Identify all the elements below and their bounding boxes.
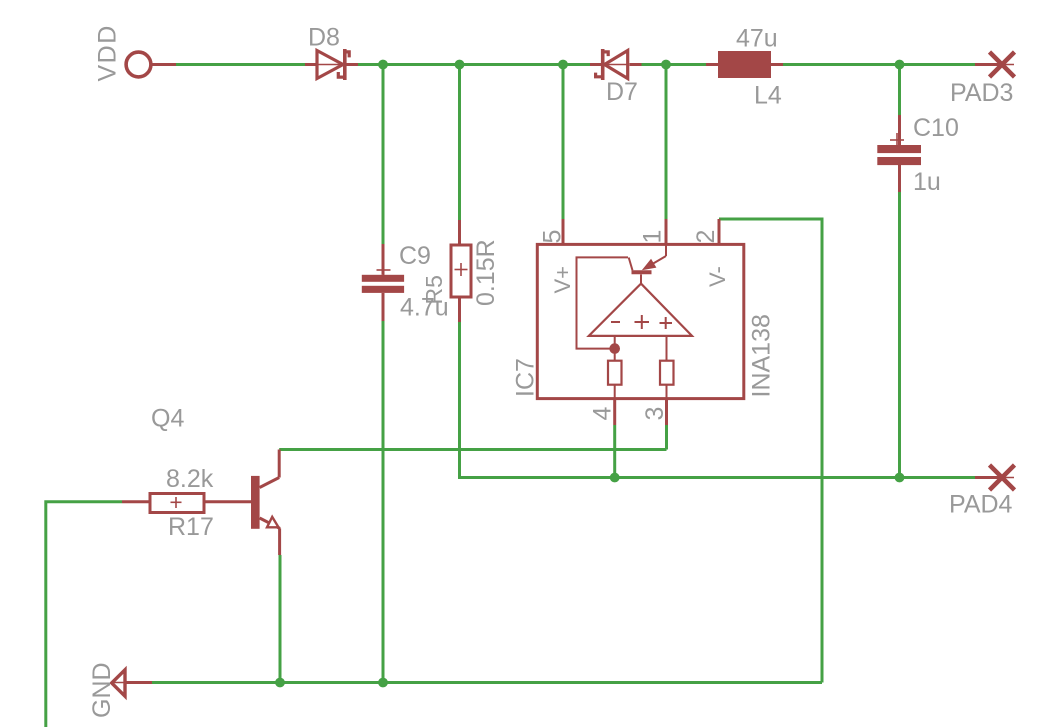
IC7 internal transistor [629,244,666,284]
op-amp plus mark center [635,315,650,329]
IC7 internal right input wire [666,336,668,361]
svg-text:1: 1 [639,230,667,244]
capacitor C9 (polarized) [362,244,404,321]
IC7 internal right resistor [660,361,674,385]
svg-text:Q4: Q4 [151,405,184,433]
svg-text:PAD3: PAD3 [950,79,1013,107]
IC7 internal right resistor lead [666,385,668,399]
svg-text:0.15R: 0.15R [472,239,500,306]
pad PAD3 [975,52,1015,77]
IC7 internal node dot [609,343,620,354]
supply pin VDD [126,52,176,77]
svg-text:R5: R5 [421,275,447,304]
junction dot C10 on PAD4 rail [895,473,905,483]
wire C10 branch from top rail [898,65,901,116]
svg-text:V+: V+ [550,266,575,294]
wire top rail D8 to D7 [358,63,590,66]
pin 2 stub [718,219,721,244]
svg-text:2: 2 [692,230,720,244]
wire R5 bottom down to PAD4 rail [460,322,976,478]
wire R5 branch down from top rail [458,65,461,221]
op-amp minus mark [611,321,620,323]
svg-text:C10: C10 [913,114,959,142]
transistor Q4 [251,450,280,556]
pin 3 stub [665,399,668,425]
inductor L4 [706,51,783,78]
wire top rail D7 to L4 [642,63,707,66]
wire C10 bottom to PAD4 rail [898,192,901,478]
svg-text:47u: 47u [736,25,778,53]
pin 1 stub [665,219,668,244]
diode D8 (schottky) [305,49,358,80]
svg-text:INA138: INA138 [748,314,776,397]
wire Q4 emitter down to GND rail [279,555,282,683]
svg-text:D8: D8 [308,24,340,52]
wire GND rail [152,681,822,684]
junction dot Q4 emitter on GND rail [275,678,285,688]
wire pin3 down [665,425,668,450]
svg-text:R17: R17 [168,513,214,541]
ground symbol GND [112,670,152,696]
op-amp plus mark right [660,317,673,329]
svg-text:3: 3 [641,407,669,421]
pad PAD4 [975,465,1015,490]
IC7 internal left resistor [608,361,622,385]
pin 5 stub [562,219,565,244]
wire Q4 collector rail to pin3 [279,448,666,451]
pin 4 stub [613,399,616,425]
wire pin2 to right loop down to GND rail [719,219,822,683]
resistor R17 [122,494,251,513]
svg-text:D7: D7 [606,78,638,106]
svg-text:V-: V- [705,266,730,287]
svg-text:GND: GND [88,662,116,718]
svg-text:PAD4: PAD4 [949,491,1013,519]
junction dot pin4 on PAD4 rail [610,473,620,483]
capacitor C10 (polarized) [877,115,921,192]
svg-text:C9: C9 [399,242,431,270]
IC7 internal op-amp triangle [589,284,692,336]
diode D7 (zener) [590,49,642,80]
svg-text:VDD: VDD [94,24,122,81]
IC7 internal feedback wire [577,257,629,348]
junction dot C9 on GND rail [378,678,388,688]
svg-text:8.2k: 8.2k [166,465,214,493]
svg-text:1u: 1u [913,168,941,196]
junction dot top rail at C9 branch [378,60,388,70]
wire C9 branch down from top rail [382,65,385,245]
resistor R5 [451,220,471,322]
svg-text:5: 5 [539,230,567,244]
wire R17 left to left rail down [46,502,122,727]
wire pin1 branch from top rail [665,65,668,220]
svg-text:IC7: IC7 [512,358,540,397]
svg-text:4: 4 [589,407,617,421]
wire pin5 branch from top rail [562,65,565,220]
IC7 internal left input wire [614,336,616,361]
junction dot top rail at R5 branch [455,60,465,70]
junction dot top rail at pin5 branch [558,60,568,70]
IC7 internal left resistor lead [614,385,616,399]
IC7 box INA138 [537,244,744,398]
junction dot top rail at pin1 branch [661,60,671,70]
wire top rail VDD to D8 [176,63,305,66]
wire pin4 down to PAD4 rail [613,425,616,478]
wire C9 bottom to GND rail [382,321,385,683]
junction dot top rail at C10 branch [895,60,905,70]
wire top rail L4 to PAD3 [783,63,975,66]
svg-text:L4: L4 [754,82,782,110]
